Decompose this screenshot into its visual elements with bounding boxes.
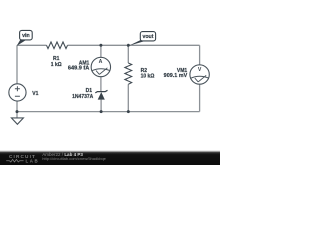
wire: V1 bottom to ground	[16, 101, 18, 118]
junction node at top of ammeter branch	[99, 44, 102, 47]
junction node V1 bottom rail	[16, 110, 19, 113]
wire: R2 branch bottom	[127, 84, 129, 111]
wire: bottom rail	[17, 111, 200, 113]
voltmeter VM1	[190, 65, 209, 84]
wire: top rail left segment (vin corner to R1)	[17, 44, 47, 46]
svg-text:1N4737A: 1N4737A	[72, 94, 94, 100]
wire: left vertical (vin corner down to V1)	[16, 45, 18, 84]
resistor R2	[125, 63, 132, 84]
node flag vin tail	[17, 40, 26, 46]
ground	[11, 118, 23, 124]
voltage source V1	[9, 84, 26, 101]
wire: R2 branch top	[127, 45, 129, 63]
svg-text:649.9 fA: 649.9 fA	[68, 66, 90, 72]
wire: voltmeter branch top	[199, 45, 201, 65]
svg-text:909.1 mV: 909.1 mV	[164, 73, 188, 79]
junction node at top of R2 branch	[127, 44, 130, 47]
CircuitLab logo zigzag and LAB	[6, 159, 23, 162]
wire: ammeter to zener	[100, 77, 102, 92]
node flag vin	[20, 30, 33, 40]
junction node diode bottom rail	[100, 110, 103, 113]
wire: ammeter branch top	[100, 45, 102, 57]
svg-text:LAB: LAB	[26, 158, 40, 163]
svg-text:A: A	[99, 59, 103, 65]
wire: voltmeter branch bottom	[199, 84, 201, 111]
svg-text:vout: vout	[142, 34, 153, 40]
node flag vout tail	[129, 40, 147, 46]
svg-text:V1: V1	[32, 91, 38, 97]
svg-text:1 kΩ: 1 kΩ	[51, 62, 62, 68]
node flag vout	[140, 32, 155, 41]
svg-text:10 kΩ: 10 kΩ	[141, 74, 155, 80]
junction node R2 bottom rail	[127, 110, 130, 113]
zener diode D1	[95, 90, 107, 93]
wire: zener to bottom rail	[100, 100, 102, 112]
resistor R1	[47, 42, 68, 49]
ammeter AM1	[91, 57, 110, 76]
svg-text:http://circuitlab.com/cnew/5ha: http://circuitlab.com/cnew/5hadkbqe	[42, 156, 106, 161]
svg-text:V: V	[198, 67, 202, 73]
svg-text:vin: vin	[22, 33, 30, 39]
watermark bar	[0, 150, 220, 165]
wire: top rail right segment (R1 to voltmeter corner)	[68, 44, 200, 46]
